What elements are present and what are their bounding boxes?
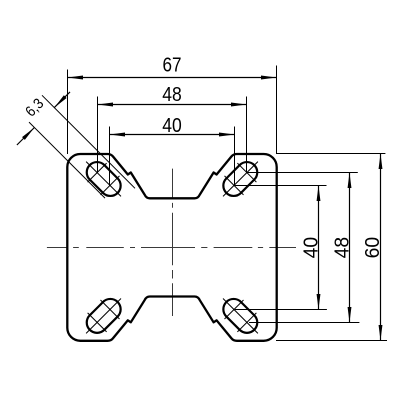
svg-text:48: 48 (162, 83, 182, 106)
svg-text:67: 67 (163, 54, 182, 77)
svg-text:40: 40 (300, 237, 323, 259)
svg-text:40: 40 (162, 114, 182, 137)
svg-text:60: 60 (361, 237, 384, 259)
svg-text:48: 48 (330, 237, 353, 259)
